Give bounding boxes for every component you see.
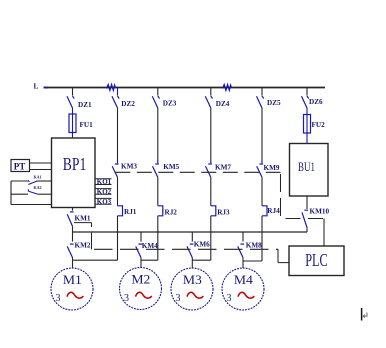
wire RJ1 down to motor junction (117, 216, 119, 260)
wire KM3 to RJ1 (117, 177, 119, 206)
motor M3 (171, 268, 213, 310)
wire bus drop column 3 (157, 88, 159, 96)
svg-text:DZ4: DZ4 (216, 100, 230, 108)
svg-text:KM7: KM7 (215, 164, 231, 172)
svg-text:KM2: KM2 (75, 242, 91, 250)
wire KM7 to RJ3 (210, 177, 212, 206)
thermal relay RJ1 (118, 206, 123, 216)
power unit box BU1 (290, 144, 329, 197)
wire FU1 to BP1 (72, 133, 74, 139)
red phase wave M2 (136, 292, 152, 298)
fuse FU2 (304, 115, 311, 134)
wire FU2 to BU1 (306, 133, 308, 144)
contactor KM9 (257, 160, 263, 177)
motor M1 (51, 268, 93, 310)
thermal relay RJ3 (211, 206, 216, 216)
svg-text:DZ3: DZ3 (163, 100, 177, 108)
contactor KM7 (206, 160, 212, 177)
wire VFD output bus (73, 231, 308, 233)
PLC box (289, 246, 344, 276)
svg-text:DZ1: DZ1 (78, 101, 92, 109)
wire PT to BP1 upper (30, 162, 52, 164)
svg-text:L: L (34, 83, 39, 91)
relay output KO3 (95, 198, 112, 204)
contact KA1 input 1 (11, 180, 28, 182)
wire KM1 to VFD bus (72, 226, 74, 232)
svg-text:FU1: FU1 (80, 121, 94, 129)
wire DZ3 to KM5 (157, 108, 159, 160)
breaker DZ3 (152, 96, 159, 108)
relay output KO2 (95, 189, 112, 195)
red phase wave M3 (187, 292, 203, 298)
svg-text:KM3: KM3 (121, 162, 137, 170)
svg-text:3: 3 (124, 293, 129, 304)
svg-text:BP1: BP1 (63, 154, 87, 174)
breaker DZ1 (67, 96, 74, 108)
wire KM4 to motor M2 (140, 258, 142, 268)
svg-text:3: 3 (227, 293, 232, 304)
svg-text:DZ5: DZ5 (267, 99, 281, 107)
control link line upper (KM3/KM5/KM7/KM9 to PLC) (115, 172, 324, 246)
wire bus drop column 1 (72, 88, 74, 96)
wire DZ6 to FU2 (306, 108, 308, 115)
wire RJ2 to M2 node (141, 259, 158, 261)
svg-text:M3: M3 (183, 272, 202, 287)
svg-text:RJ1: RJ1 (124, 208, 137, 216)
contact KA2 input 2 (11, 193, 28, 195)
svg-text:3: 3 (176, 293, 181, 304)
svg-text:KM10: KM10 (310, 208, 330, 216)
contactor KM3 (112, 160, 118, 177)
wire RJ2 down to motor junction (157, 216, 159, 260)
wire RJ1 to M1 node (73, 259, 118, 261)
control link line lower (KM1/KM2/KM4/KM6/KM8 to PLC) (74, 223, 289, 263)
svg-text:M4: M4 (234, 272, 254, 287)
thermal relay RJ4 (262, 206, 267, 216)
svg-text:BU1: BU1 (298, 159, 315, 174)
red phase wave M1 (67, 292, 83, 298)
svg-text:KO1: KO1 (97, 178, 112, 186)
wire KM6 to motor M3 (191, 258, 193, 269)
svg-text:3: 3 (56, 293, 61, 304)
contactor KM6 (191, 232, 193, 242)
svg-text:RJ2: RJ2 (165, 208, 178, 216)
svg-text:KA1: KA1 (34, 175, 42, 180)
thermal relay RJ2 (158, 206, 163, 216)
contactor KM5 (153, 160, 159, 177)
breaker DZ4 (205, 96, 212, 108)
breaker DZ6 (302, 96, 309, 108)
inductor-style break mark on bus (right) (223, 85, 232, 91)
wire bus drop column 6 (306, 88, 308, 96)
relay output KO1 (95, 179, 112, 185)
wire KM8 to motor M4 (242, 258, 244, 269)
contactor KM8 (242, 232, 244, 242)
svg-text:KO2: KO2 (97, 188, 112, 196)
svg-text:DZ2: DZ2 (121, 100, 135, 108)
wire bus drop column 5 (261, 88, 263, 96)
wire RJ4 down to motor junction (261, 216, 263, 261)
svg-text:KM4: KM4 (142, 242, 158, 250)
wire RJ3 down to motor junction (210, 216, 212, 260)
breaker DZ5 (257, 96, 264, 108)
svg-text:KM1: KM1 (75, 215, 91, 223)
wire DZ5 to KM9 (261, 108, 263, 160)
wire DZ2 to KM3 (117, 108, 119, 160)
wire RJ3 to M3 node (192, 259, 211, 261)
svg-text:M1: M1 (63, 272, 82, 287)
svg-text:DZ6: DZ6 (309, 98, 323, 106)
svg-text:KM9: KM9 (264, 164, 280, 172)
wire KM5 to RJ2 (157, 177, 159, 206)
svg-text:M2: M2 (131, 272, 150, 287)
wire PT to BP1 lower (30, 169, 52, 171)
contactor KM2 (72, 232, 74, 242)
wire BU1 to KM10 (306, 196, 308, 209)
svg-text:KA2: KA2 (34, 185, 42, 190)
inductor-style break mark on bus (left) (107, 85, 116, 91)
left input rail (10, 181, 12, 205)
transformer box PT (11, 160, 30, 172)
motor M2 (120, 268, 162, 310)
svg-text:KM8: KM8 (246, 242, 262, 250)
wire KM10 to VFD bus end (306, 228, 308, 232)
svg-text:KM6: KM6 (194, 241, 210, 249)
wire bus L (top horizontal bus) (44, 87, 326, 89)
red phase wave M4 (238, 292, 254, 298)
wire KM9 to RJ4 (261, 177, 263, 206)
svg-text:RJ3: RJ3 (217, 208, 230, 216)
svg-text:KM5: KM5 (163, 163, 179, 171)
svg-text:KO3: KO3 (97, 198, 112, 206)
wire BP1 output (72, 208, 74, 211)
fuse FU1 (69, 114, 76, 133)
breaker DZ2 (112, 96, 119, 108)
wire DZ4 to KM7 (210, 108, 212, 160)
svg-text:RJ4: RJ4 (267, 207, 280, 215)
VFD box BP1 (52, 138, 96, 208)
wire input 3 (11, 204, 52, 206)
wire bus drop column 2 (117, 88, 119, 96)
wire bus drop column 4 (210, 88, 212, 96)
cursor caret mark (361, 308, 363, 321)
paragraph return mark (363, 313, 367, 318)
svg-text:FU2: FU2 (312, 121, 326, 129)
contactor KM10 (302, 210, 308, 228)
wire KM2 to motor M1 (72, 258, 74, 269)
wire DZ1 to FU1 (72, 108, 74, 114)
svg-text:PT: PT (14, 161, 26, 171)
wire bus blue tip (44, 87, 49, 89)
contactor KM1 (67, 212, 73, 226)
svg-text:PLC: PLC (305, 250, 328, 270)
contactor KM4 (140, 232, 142, 242)
wire RJ4 to M4 node (243, 260, 262, 262)
motor M4 (222, 268, 264, 310)
